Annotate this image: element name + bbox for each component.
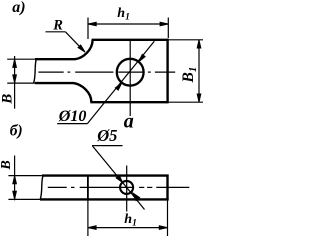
horizontal centerline top view bbox=[38, 71, 63, 73]
fillet bottom transition bbox=[74, 83, 92, 102]
left broken end of part (top view) bbox=[34, 59, 37, 83]
svg-text:а): а) bbox=[12, 0, 25, 16]
dimension B top view: dimension line bbox=[14, 56, 16, 109]
diameter 10 leader diagonal bbox=[87, 41, 154, 123]
dimension B1 right: bottom extension line bbox=[169, 101, 203, 103]
dimension B1: bottom arrow bbox=[197, 94, 201, 102]
dimension B bottom view: dimension line bbox=[14, 156, 16, 201]
dimension B bottom: upper arrow bbox=[13, 176, 17, 184]
dimension h1 top: right arrow bbox=[160, 22, 168, 26]
dimension B top: lower arrow bbox=[13, 75, 17, 83]
dimension h1 top: left extension line bbox=[87, 18, 89, 40]
dimension B1: top arrow bbox=[197, 40, 201, 48]
svg-text:Ø5: Ø5 bbox=[96, 126, 117, 145]
diameter 10 lower-left arrow bbox=[115, 83, 121, 90]
bar bottom edge bbox=[40, 198, 169, 200]
fillet R top transition bbox=[75, 40, 93, 59]
dimension h1 bottom: left arrow bbox=[88, 226, 96, 230]
svg-text:В: В bbox=[0, 94, 15, 105]
bar top edge extension bbox=[8, 175, 43, 177]
horizontal centerline bottom view bbox=[48, 186, 67, 188]
diameter 5 leader diagonal bbox=[93, 146, 145, 210]
bar bottom edge extension bbox=[8, 198, 41, 200]
radius R leader shelf bbox=[46, 31, 66, 33]
right edge of wide section bbox=[166, 39, 168, 103]
bottom edge narrow section extension bbox=[7, 82, 36, 84]
dimension B bottom: lower arrow bbox=[13, 191, 17, 199]
bottom edge of wide section bbox=[90, 101, 168, 103]
top edge of wide section bbox=[92, 39, 169, 41]
dimension B top: upper arrow bbox=[13, 59, 17, 67]
svg-text:В: В bbox=[0, 160, 14, 170]
diameter 10 upper-right arrow bbox=[139, 54, 145, 61]
diameter 5 leader shelf bbox=[92, 145, 123, 147]
diameter 5 lower-right arrow bbox=[133, 193, 140, 201]
diameter 5 upper-left arrow bbox=[116, 175, 122, 182]
dimension h1 bottom: dimension line bbox=[88, 227, 168, 229]
dimension h1 top: right extension line bbox=[167, 18, 169, 39]
vertical centerline through hole bottom view bbox=[126, 166, 128, 212]
dimension h1 top: dimension line bbox=[88, 23, 168, 25]
svg-text:б): б) bbox=[10, 122, 23, 139]
radius R arrow bbox=[78, 45, 85, 52]
hole circle D5 bbox=[120, 181, 133, 194]
bar right edge bbox=[166, 175, 168, 201]
step edge line in side view bbox=[87, 176, 89, 200]
wire top edge narrow section extension bbox=[7, 58, 36, 60]
dimension h1 bottom: right extension line bbox=[167, 200, 169, 236]
top edge of narrow section bbox=[35, 58, 76, 60]
bar top edge bbox=[42, 174, 169, 176]
dimension h1 top: left arrow bbox=[88, 22, 96, 26]
svg-text:Ø10: Ø10 bbox=[58, 108, 87, 125]
vertical centerline through hole top view bbox=[129, 40, 131, 116]
hole circle D10 bbox=[117, 59, 144, 86]
radius R leader diagonal bbox=[65, 32, 84, 52]
diameter 10 leader shelf bbox=[57, 123, 87, 125]
bar left broken end bbox=[40, 176, 43, 200]
dimension B1 right: dimension line bbox=[198, 40, 200, 102]
svg-text:а: а bbox=[124, 110, 134, 132]
dimension h1 bottom: right arrow bbox=[159, 226, 167, 230]
dimension B1 right: top extension line bbox=[169, 39, 203, 41]
bottom edge of narrow section bbox=[35, 82, 74, 84]
dimension h1 bottom: left extension line bbox=[87, 199, 89, 236]
